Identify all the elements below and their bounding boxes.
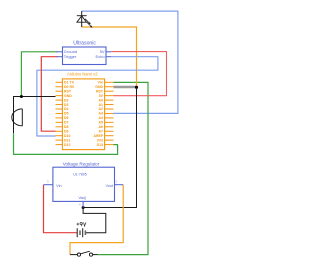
svg-text:A3: A3 <box>99 112 104 116</box>
svg-text:D12: D12 <box>64 143 70 147</box>
svg-text:Vadj: Vadj <box>78 196 85 200</box>
svg-text:Vin: Vin <box>98 81 103 85</box>
svg-text:A5: A5 <box>99 121 104 125</box>
node Vadj junction <box>82 206 85 209</box>
battery BT1 <box>77 228 85 237</box>
svg-text:Voltage Regulator: Voltage Regulator <box>63 162 100 167</box>
svg-text:D11: D11 <box>64 138 70 142</box>
wire black GND bus down to Vadj <box>83 87 136 207</box>
arduino nano left pin stubs <box>56 82 63 144</box>
wire blue Echo to D10 <box>37 57 158 136</box>
svg-text:U1-7805: U1-7805 <box>73 173 86 177</box>
svg-text:GND: GND <box>95 85 103 89</box>
wire red battery plus to regulator Vin <box>44 185 77 233</box>
svg-text:GND: GND <box>64 94 72 98</box>
wire green nano Vin to switch <box>98 82 148 254</box>
svg-text:D6: D6 <box>64 116 69 120</box>
ultrasonic pin stubs <box>57 52 112 57</box>
svg-text:D4: D4 <box>64 107 69 111</box>
arduino nano left pin labels <box>64 81 75 147</box>
switch S1 <box>77 251 92 256</box>
voltage regulator pin numbers <box>47 179 118 206</box>
svg-text:3V3: 3V3 <box>97 138 103 142</box>
svg-text:D7: D7 <box>64 121 69 125</box>
svg-text:D10: D10 <box>64 134 70 138</box>
node junction speaker-ground <box>20 95 23 98</box>
switch S1 lead right <box>93 254 98 256</box>
switch S1 lead left <box>70 254 77 256</box>
svg-text:A0: A0 <box>99 98 104 102</box>
svg-text:Vin: Vin <box>56 184 61 188</box>
svg-text:D3: D3 <box>64 103 69 107</box>
LED D1 lead wire <box>81 11 83 27</box>
svg-text:A2: A2 <box>99 107 104 111</box>
wire black Vadj to battery minus <box>83 208 106 233</box>
svg-text:A4: A4 <box>99 116 104 120</box>
svg-text:5V: 5V <box>99 94 104 98</box>
svg-text:AREF: AREF <box>93 134 103 138</box>
svg-text:D1 TX: D1 TX <box>64 81 75 85</box>
arduino nano right pin stubs <box>105 82 114 144</box>
node GND junction <box>135 86 138 89</box>
ultrasonic U2 box <box>63 47 107 65</box>
svg-text:A1: A1 <box>99 103 104 107</box>
wire orange LED-to-GND-node <box>82 27 137 87</box>
svg-text:Vout: Vout <box>106 184 113 188</box>
svg-text:D5: D5 <box>64 112 69 116</box>
svg-text:Echo: Echo <box>95 54 105 59</box>
wire red Trigger to D9 <box>41 57 57 132</box>
voltage regulator pin labels <box>56 184 113 200</box>
svg-text:Arduino Nano v2: Arduino Nano v2 <box>67 72 98 77</box>
speaker LS1 <box>12 109 22 126</box>
battery label +9V <box>77 222 86 226</box>
arduino nano U3 box <box>62 79 104 150</box>
svg-text:A6: A6 <box>99 125 104 129</box>
LED D1 <box>77 16 92 28</box>
wire orange regulator Vout to switch <box>70 185 123 255</box>
svg-text:RST: RST <box>96 89 104 93</box>
wire green speaker to D13 <box>14 133 118 154</box>
wire gray nano GND to node <box>114 86 137 89</box>
svg-text:Trigger: Trigger <box>64 54 77 59</box>
svg-text:D13: D13 <box>97 143 103 147</box>
wire black speaker to left GND pin <box>14 97 56 134</box>
ultrasonic pin labels <box>64 49 106 59</box>
svg-text:D8: D8 <box>64 125 69 129</box>
voltage regulator U1 box <box>53 167 115 201</box>
voltage regulator pin stubs <box>44 185 124 208</box>
svg-text:RST: RST <box>64 89 72 93</box>
wire red ultrasonic-5V to nano-5V <box>111 52 166 96</box>
svg-text:D0 RX: D0 RX <box>64 85 75 89</box>
svg-text:Ultrasonic: Ultrasonic <box>73 41 96 47</box>
svg-text:D2: D2 <box>64 98 69 102</box>
arduino nano right pin labels <box>93 81 103 147</box>
svg-text:A7: A7 <box>99 129 104 133</box>
wire green ultrasonic Ground to GND junction <box>21 52 57 97</box>
wire blue LED-to-A3 <box>82 11 178 113</box>
svg-text:D9: D9 <box>64 129 69 133</box>
